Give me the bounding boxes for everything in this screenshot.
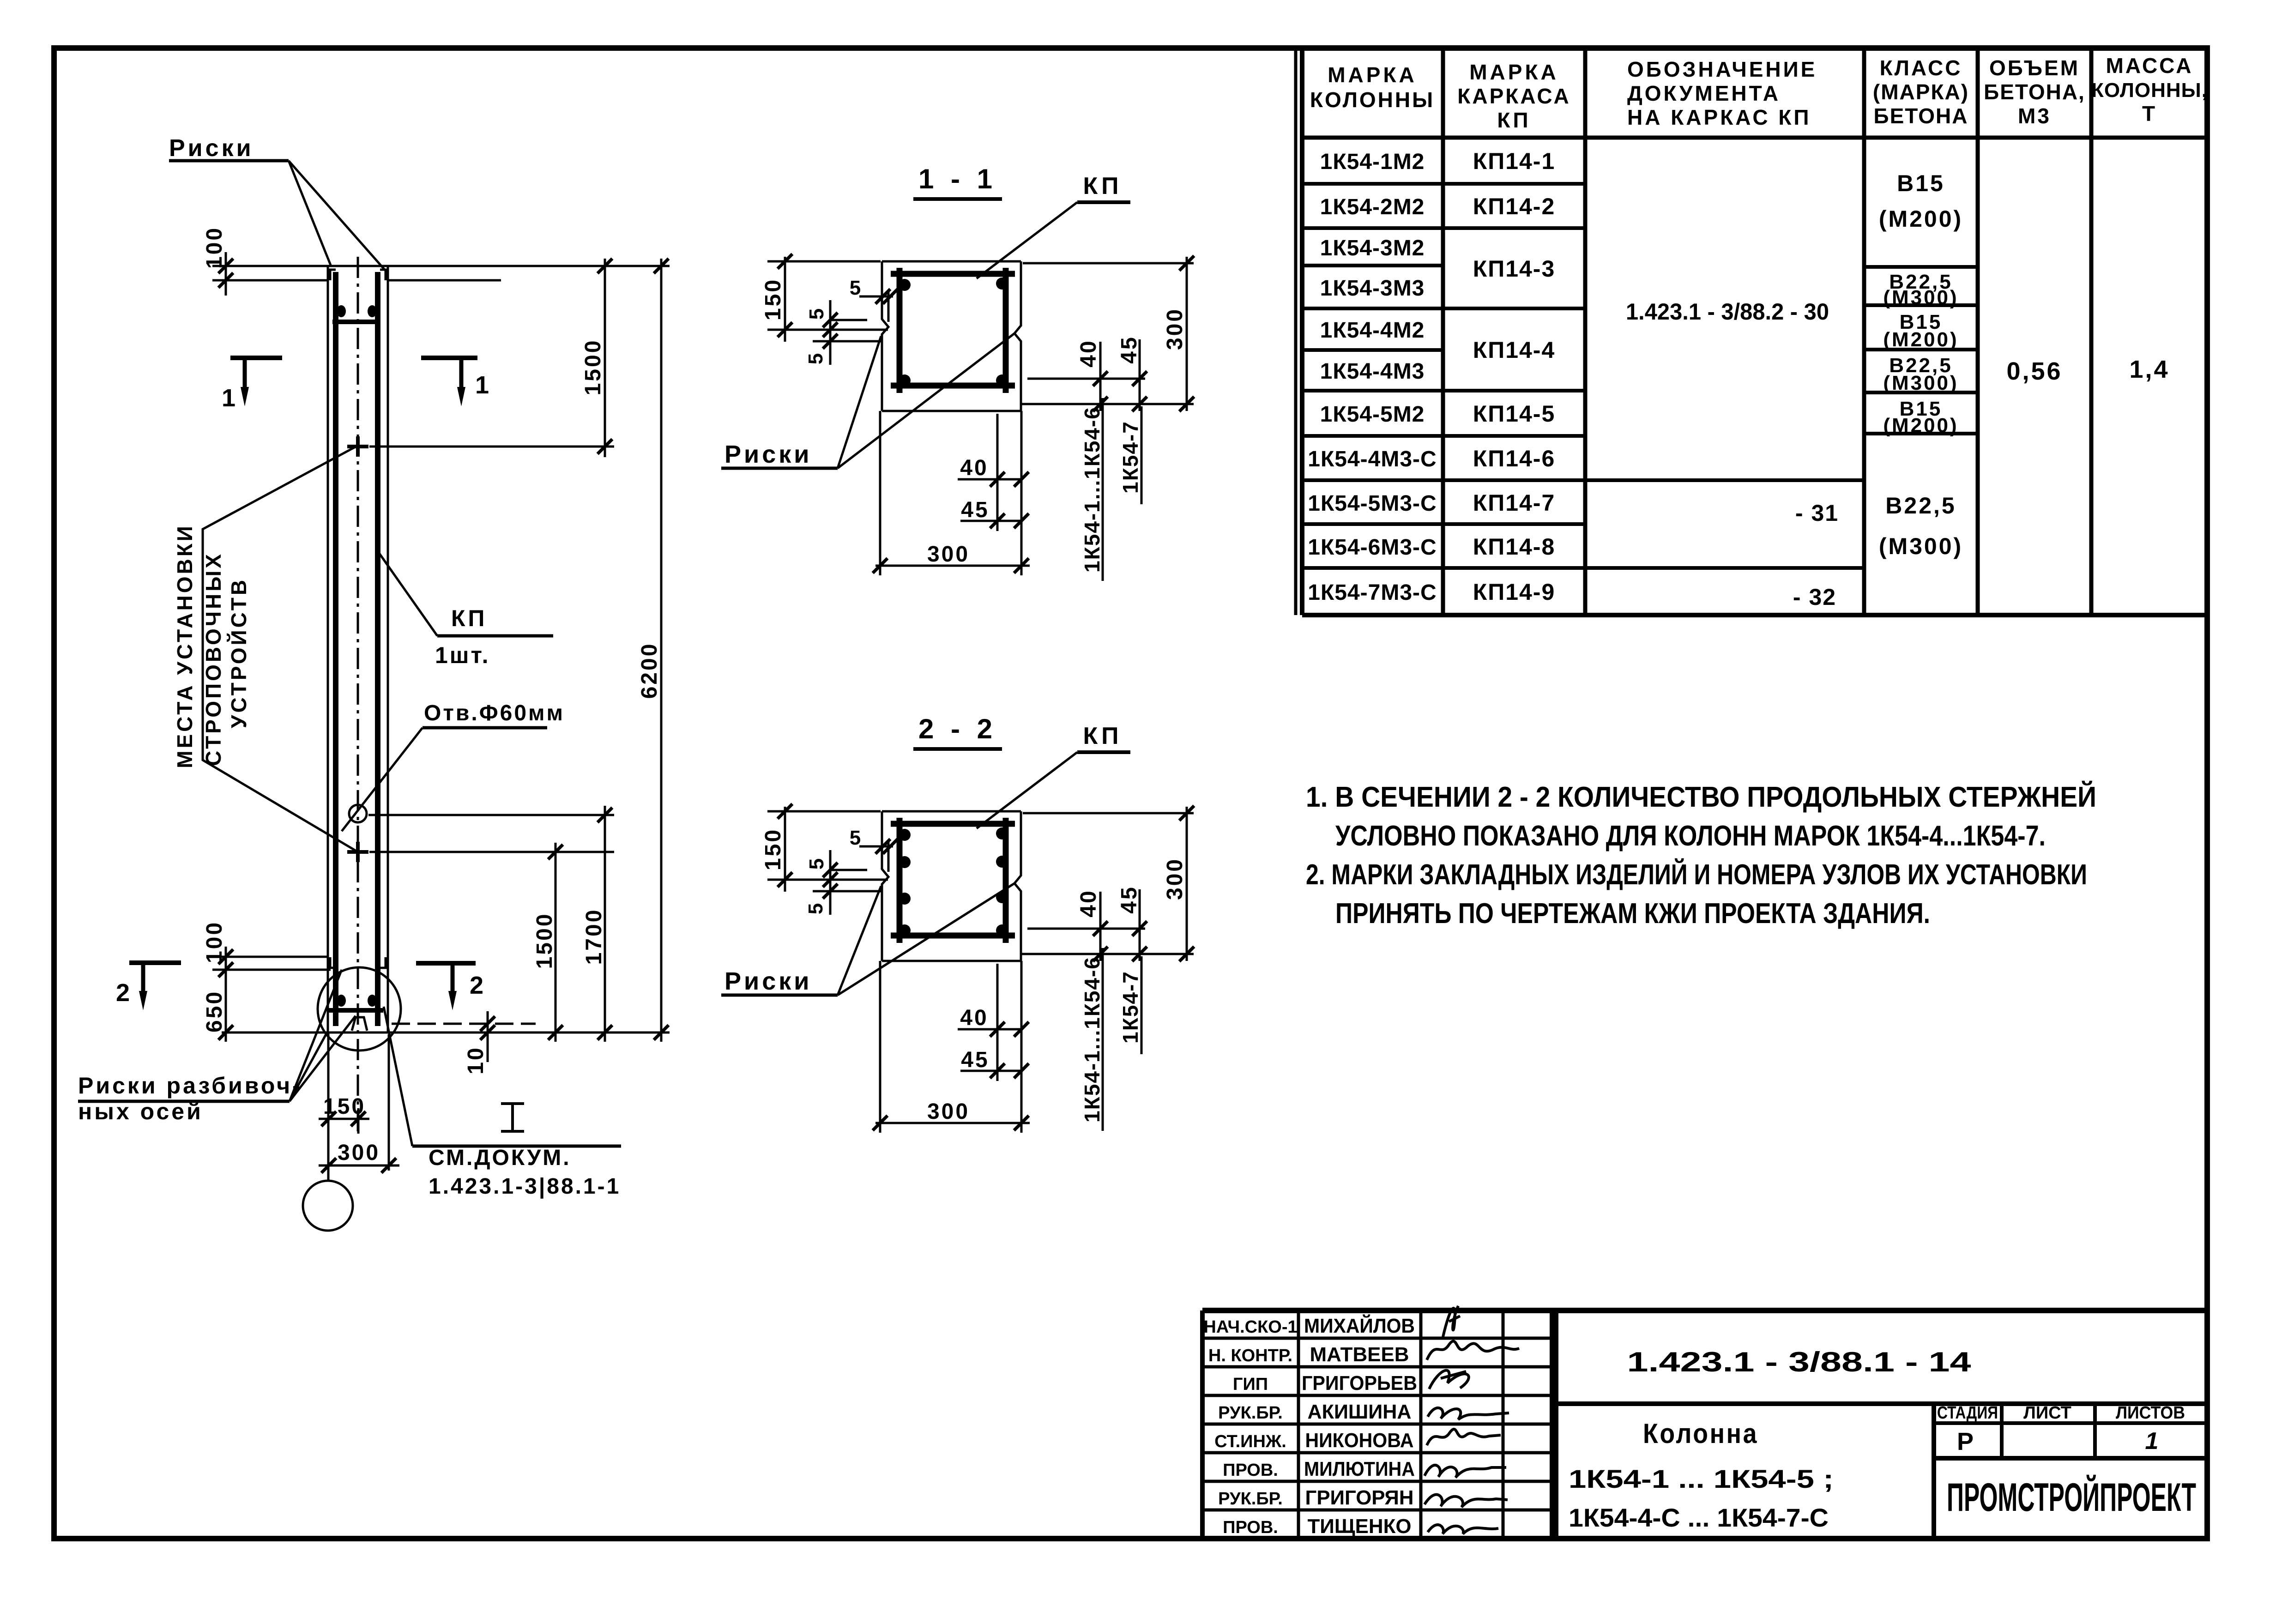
svg-text:(М200): (М200) <box>1879 206 1963 232</box>
svg-text:650: 650 <box>202 990 227 1032</box>
svg-text:КП: КП <box>1083 723 1122 749</box>
svg-text:1шт.: 1шт. <box>435 642 490 668</box>
svg-text:2: 2 <box>470 972 485 999</box>
svg-text:5: 5 <box>805 857 828 869</box>
dim 300 bottom <box>388 1034 390 1171</box>
svg-text:1К54-4М3-С: 1К54-4М3-С <box>1308 447 1437 471</box>
svg-text:1К54-4М2: 1К54-4М2 <box>1320 318 1425 343</box>
dim 6200 <box>660 259 663 1042</box>
column rebar bars <box>333 272 338 1026</box>
svg-text:300: 300 <box>1163 857 1187 900</box>
svg-text:ЛИСТОВ: ЛИСТОВ <box>2116 1403 2185 1423</box>
svg-text:Колонна: Колонна <box>1643 1418 1758 1449</box>
axis extension and bubble <box>327 1032 330 1181</box>
svg-text:НИКОНОВА: НИКОНОВА <box>1305 1429 1414 1452</box>
svg-text:ПРОВ.: ПРОВ. <box>1223 1518 1278 1537</box>
section 2 - 2 right dims 40 45 300 <box>1027 928 1145 930</box>
svg-text:(МАРКА): (МАРКА) <box>1873 80 1969 104</box>
svg-text:1: 1 <box>475 371 491 399</box>
top strop device <box>337 305 346 317</box>
svg-text:АКИШИНА: АКИШИНА <box>1308 1401 1412 1423</box>
svg-text:1500: 1500 <box>532 912 557 969</box>
section mark 2 right <box>416 961 476 966</box>
svg-text:КОЛОННЫ: КОЛОННЫ <box>1310 88 1435 112</box>
svg-text:НА КАРКАС КП: НА КАРКАС КП <box>1627 105 1811 129</box>
svg-text:БЕТОНА: БЕТОНА <box>1874 104 1968 128</box>
bottom strop device <box>337 995 346 1007</box>
column centerline <box>357 257 359 1135</box>
svg-text:КОЛОННЫ,: КОЛОННЫ, <box>2091 79 2208 102</box>
svg-text:150: 150 <box>761 278 785 320</box>
svg-text:1К54-1...1К54-6: 1К54-1...1К54-6 <box>1080 956 1104 1123</box>
svg-text:КП14-2: КП14-2 <box>1473 193 1556 219</box>
svg-text:ГИП: ГИП <box>1233 1375 1268 1394</box>
svg-text:ОБЪЕМ: ОБЪЕМ <box>1989 56 2080 80</box>
svg-text:1К54-4М3: 1К54-4М3 <box>1320 359 1425 384</box>
dim 1500 top <box>369 446 614 448</box>
svg-text:0,56: 0,56 <box>2006 357 2062 385</box>
svg-text:40: 40 <box>960 1006 988 1030</box>
svg-text:2. МАРКИ ЗАКЛАДНЫХ ИЗДЕЛИЙ: 2. МАРКИ ЗАКЛАДНЫХ ИЗДЕЛИЙ И НОМЕРА УЗЛО… <box>1306 858 2087 891</box>
svg-text:1. В СЕЧЕНИИ 2 - 2 КОЛИЧЕСТВ: 1. В СЕЧЕНИИ 2 - 2 КОЛИЧЕСТВО ПРОДОЛЬНЫХ… <box>1306 781 2096 813</box>
svg-text:1К54-7М3-С: 1К54-7М3-С <box>1308 580 1437 605</box>
svg-text:150: 150 <box>323 1094 366 1119</box>
section mark 1 right <box>421 356 477 360</box>
section 1 - 1 outline <box>882 260 1021 263</box>
svg-text:М3: М3 <box>2018 104 2051 128</box>
svg-text:КП14-9: КП14-9 <box>1473 579 1556 605</box>
svg-text:Риски: Риски <box>724 441 812 468</box>
svg-text:МАРКА: МАРКА <box>1328 63 1417 87</box>
svg-text:В22,5: В22,5 <box>1885 493 1956 519</box>
title block signature table <box>1202 1308 2207 1313</box>
bottom anchor symbol <box>352 1017 367 1031</box>
svg-text:ГРИГОРЯН: ГРИГОРЯН <box>1305 1486 1414 1509</box>
svg-text:В15: В15 <box>1897 170 1945 196</box>
section 1 - 1 right dims 40 45 300 <box>1027 378 1145 380</box>
svg-text:МАТВЕЕВ: МАТВЕЕВ <box>1310 1343 1409 1366</box>
svg-text:МИХАЙЛОВ: МИХАЙЛОВ <box>1304 1314 1415 1337</box>
svg-text:1К54-7: 1К54-7 <box>1118 421 1142 494</box>
extension line top to dims <box>388 265 670 267</box>
svg-text:Отв.Ф60мм: Отв.Ф60мм <box>424 701 565 725</box>
svg-text:1 - 1: 1 - 1 <box>918 163 997 194</box>
section 1 - 1 dim 150 <box>784 257 786 342</box>
dashed axis line right of bottom <box>392 1023 536 1025</box>
sm dokum label <box>501 1102 524 1105</box>
svg-text:(М300): (М300) <box>1879 533 1963 559</box>
svg-text:45: 45 <box>961 1048 989 1072</box>
svg-text:45: 45 <box>1117 885 1141 913</box>
svg-text:КП: КП <box>1083 173 1122 199</box>
svg-text:ОБОЗНАЧЕНИЕ: ОБОЗНАЧЕНИЕ <box>1627 57 1817 81</box>
svg-text:1К54-3М3: 1К54-3М3 <box>1320 276 1425 301</box>
column bottom line <box>222 1032 670 1034</box>
svg-text:Н. КОНТР.: Н. КОНТР. <box>1208 1346 1292 1365</box>
svg-text:РУК.БР.: РУК.БР. <box>1218 1489 1283 1509</box>
svg-text:Р: Р <box>1957 1428 1975 1455</box>
section mark 2 left <box>129 960 181 965</box>
svg-text:40: 40 <box>960 456 988 480</box>
svg-text:УСЛОВНО ПОКАЗАНО ДЛЯ КОЛОНН: УСЛОВНО ПОКАЗАНО ДЛЯ КОЛОНН МАРОК 1К54-4… <box>1335 820 2046 852</box>
svg-text:1.423.1-3|88.1-1: 1.423.1-3|88.1-1 <box>429 1174 621 1199</box>
section 2 - 2 dims 5 <box>829 850 832 915</box>
svg-text:КП14-6: КП14-6 <box>1473 446 1556 471</box>
svg-text:1К54-7: 1К54-7 <box>1118 971 1142 1044</box>
svg-text:ТИЩЕНКО: ТИЩЕНКО <box>1308 1515 1412 1538</box>
riska notches bottom <box>330 957 336 968</box>
svg-text:40: 40 <box>1076 339 1101 367</box>
svg-text:МАРКА: МАРКА <box>1469 60 1559 84</box>
section 2 - 2 dim 150 <box>784 807 786 892</box>
svg-text:КП14-3: КП14-3 <box>1473 256 1556 282</box>
svg-text:1К54-4-С ... 1К54-7-С: 1К54-4-С ... 1К54-7-С <box>1569 1503 1829 1532</box>
svg-text:МИЛЮТИНА: МИЛЮТИНА <box>1304 1458 1415 1480</box>
table double left line <box>1294 48 1298 615</box>
svg-text:ПРОМСТРОЙПРОЕКТ: ПРОМСТРОЙПРОЕКТ <box>1947 1475 2196 1520</box>
svg-text:1500: 1500 <box>581 339 605 396</box>
svg-text:1К54-1 ... 1К54-5 ;: 1К54-1 ... 1К54-5 ; <box>1569 1464 1834 1493</box>
svg-text:300: 300 <box>1163 308 1187 350</box>
section 2 - 2 outline <box>882 810 1021 813</box>
svg-text:МЕСТА УСТАНОВКИ: МЕСТА УСТАНОВКИ <box>173 524 197 768</box>
svg-text:УСТРОЙСТВ: УСТРОЙСТВ <box>227 578 251 728</box>
section 1 - 1 longitudinal bars <box>899 279 911 291</box>
svg-text:СТ.ИНЖ.: СТ.ИНЖ. <box>1214 1432 1286 1451</box>
dim 150 bottom <box>357 1108 360 1134</box>
svg-text:1.423.1 - 3/88.1 - 14: 1.423.1 - 3/88.1 - 14 <box>1627 1346 1972 1377</box>
svg-text:5: 5 <box>804 901 827 914</box>
bracket polyline to strop crosses <box>203 447 358 852</box>
svg-text:(М300): (М300) <box>1883 286 1958 309</box>
svg-text:Т: Т <box>2142 102 2157 126</box>
svg-text:300: 300 <box>927 542 970 567</box>
svg-text:(М200): (М200) <box>1883 414 1958 437</box>
svg-text:КП14-8: КП14-8 <box>1473 534 1556 560</box>
svg-text:(М200): (М200) <box>1883 328 1958 351</box>
svg-text:2: 2 <box>116 979 132 1007</box>
title block signatures (handwritten squiggles) <box>1443 1306 1460 1337</box>
svg-text:1К54-5М2: 1К54-5М2 <box>1320 402 1425 427</box>
table header bottom <box>1302 136 2207 140</box>
svg-text:45: 45 <box>1117 335 1141 363</box>
section 1 - 1 dims 5 <box>829 300 832 365</box>
svg-text:БЕТОНА,: БЕТОНА, <box>1984 80 2085 104</box>
svg-text:1К54-6М3-С: 1К54-6М3-С <box>1308 535 1437 560</box>
svg-text:300: 300 <box>927 1099 970 1124</box>
svg-text:1К54-3М2: 1К54-3М2 <box>1320 236 1425 260</box>
detail circle <box>318 967 401 1050</box>
svg-text:1,4: 1,4 <box>2129 356 2169 383</box>
svg-text:КП14-5: КП14-5 <box>1473 401 1556 427</box>
svg-text:МАССА: МАССА <box>2106 54 2193 78</box>
svg-text:40: 40 <box>1076 889 1101 917</box>
svg-text:КЛАСС: КЛАСС <box>1880 56 1962 80</box>
svg-text:СТРОПОВОЧНЫХ: СТРОПОВОЧНЫХ <box>201 552 225 766</box>
svg-text:1К54-2М2: 1К54-2М2 <box>1320 195 1425 219</box>
svg-text:1: 1 <box>222 384 237 412</box>
svg-text:КП: КП <box>451 605 487 631</box>
title block right part <box>1554 1310 1558 1539</box>
svg-text:ПРОВ.: ПРОВ. <box>1223 1461 1278 1480</box>
svg-text:1: 1 <box>2145 1428 2159 1455</box>
section mark 1 left <box>230 356 282 360</box>
column elevation outline <box>327 266 329 1032</box>
section 2 - 2 stirrup <box>891 821 1015 827</box>
svg-text:РУК.БР.: РУК.БР. <box>1218 1403 1283 1423</box>
svg-text:Риски разбивоч-: Риски разбивоч- <box>78 1073 302 1099</box>
svg-text:КП14-1: КП14-1 <box>1473 148 1556 174</box>
svg-text:10: 10 <box>464 1046 488 1074</box>
bottom-left dims 100 650 <box>212 956 329 958</box>
svg-text:ГРИГОРЬЕВ: ГРИГОРЬЕВ <box>1302 1372 1417 1395</box>
svg-text:5: 5 <box>804 351 827 364</box>
svg-text:КП14-4: КП14-4 <box>1473 337 1556 363</box>
svg-text:1К54-1М2: 1К54-1М2 <box>1320 150 1425 174</box>
riska notches top <box>330 270 336 280</box>
dim 100 top-left <box>212 265 329 267</box>
svg-text:1.423.1 - 3/88.2 - 30: 1.423.1 - 3/88.2 - 30 <box>1626 299 1829 325</box>
section 2 - 2 longitudinal bars <box>899 829 911 841</box>
svg-text:100: 100 <box>202 921 227 963</box>
svg-text:6200: 6200 <box>637 642 662 699</box>
dim 10 <box>487 1011 489 1062</box>
svg-text:Риски: Риски <box>169 135 254 162</box>
svg-text:- 32: - 32 <box>1793 584 1836 610</box>
svg-text:ДОКУМЕНТА: ДОКУМЕНТА <box>1627 81 1781 105</box>
svg-text:КАРКАСА: КАРКАСА <box>1457 84 1570 108</box>
svg-text:ПРИНЯТЬ ПО ЧЕРТЕЖАМ КЖИ ПР: ПРИНЯТЬ ПО ЧЕРТЕЖАМ КЖИ ПРОЕКТА ЗДАНИЯ. <box>1335 898 1930 930</box>
svg-text:КП14-7: КП14-7 <box>1473 490 1556 516</box>
svg-text:1К54-5М3-С: 1К54-5М3-С <box>1308 491 1437 516</box>
svg-text:НАЧ.СКО-1: НАЧ.СКО-1 <box>1203 1317 1297 1337</box>
svg-text:СТАДИЯ: СТАДИЯ <box>1937 1403 1998 1423</box>
svg-text:(М300): (М300) <box>1883 372 1958 394</box>
strop cross upper <box>347 445 368 448</box>
section 1 - 1 bottom dims 40 45 300 <box>879 411 881 575</box>
svg-text:ЛИСТ: ЛИСТ <box>2023 1403 2071 1423</box>
svg-text:150: 150 <box>761 828 785 870</box>
svg-text:СМ.ДОКУМ.: СМ.ДОКУМ. <box>429 1146 571 1170</box>
svg-text:- 31: - 31 <box>1795 500 1839 526</box>
svg-text:Риски: Риски <box>724 967 812 995</box>
svg-text:5: 5 <box>805 307 828 320</box>
section 1 - 1 stirrup <box>891 271 1015 277</box>
hole Otv.60 <box>349 805 367 822</box>
svg-text:КП: КП <box>1497 108 1531 132</box>
svg-text:1700: 1700 <box>582 908 606 965</box>
section 2 - 2 bottom dims 40 45 300 <box>879 961 881 1133</box>
svg-text:45: 45 <box>961 498 989 522</box>
dim 1500/1700 bottom <box>369 851 614 853</box>
svg-text:2 - 2: 2 - 2 <box>918 713 997 744</box>
svg-text:300: 300 <box>338 1141 380 1165</box>
svg-text:100: 100 <box>202 226 227 269</box>
strop cross lower <box>347 850 368 854</box>
svg-text:1К54-1...1К54-6: 1К54-1...1К54-6 <box>1080 406 1104 573</box>
